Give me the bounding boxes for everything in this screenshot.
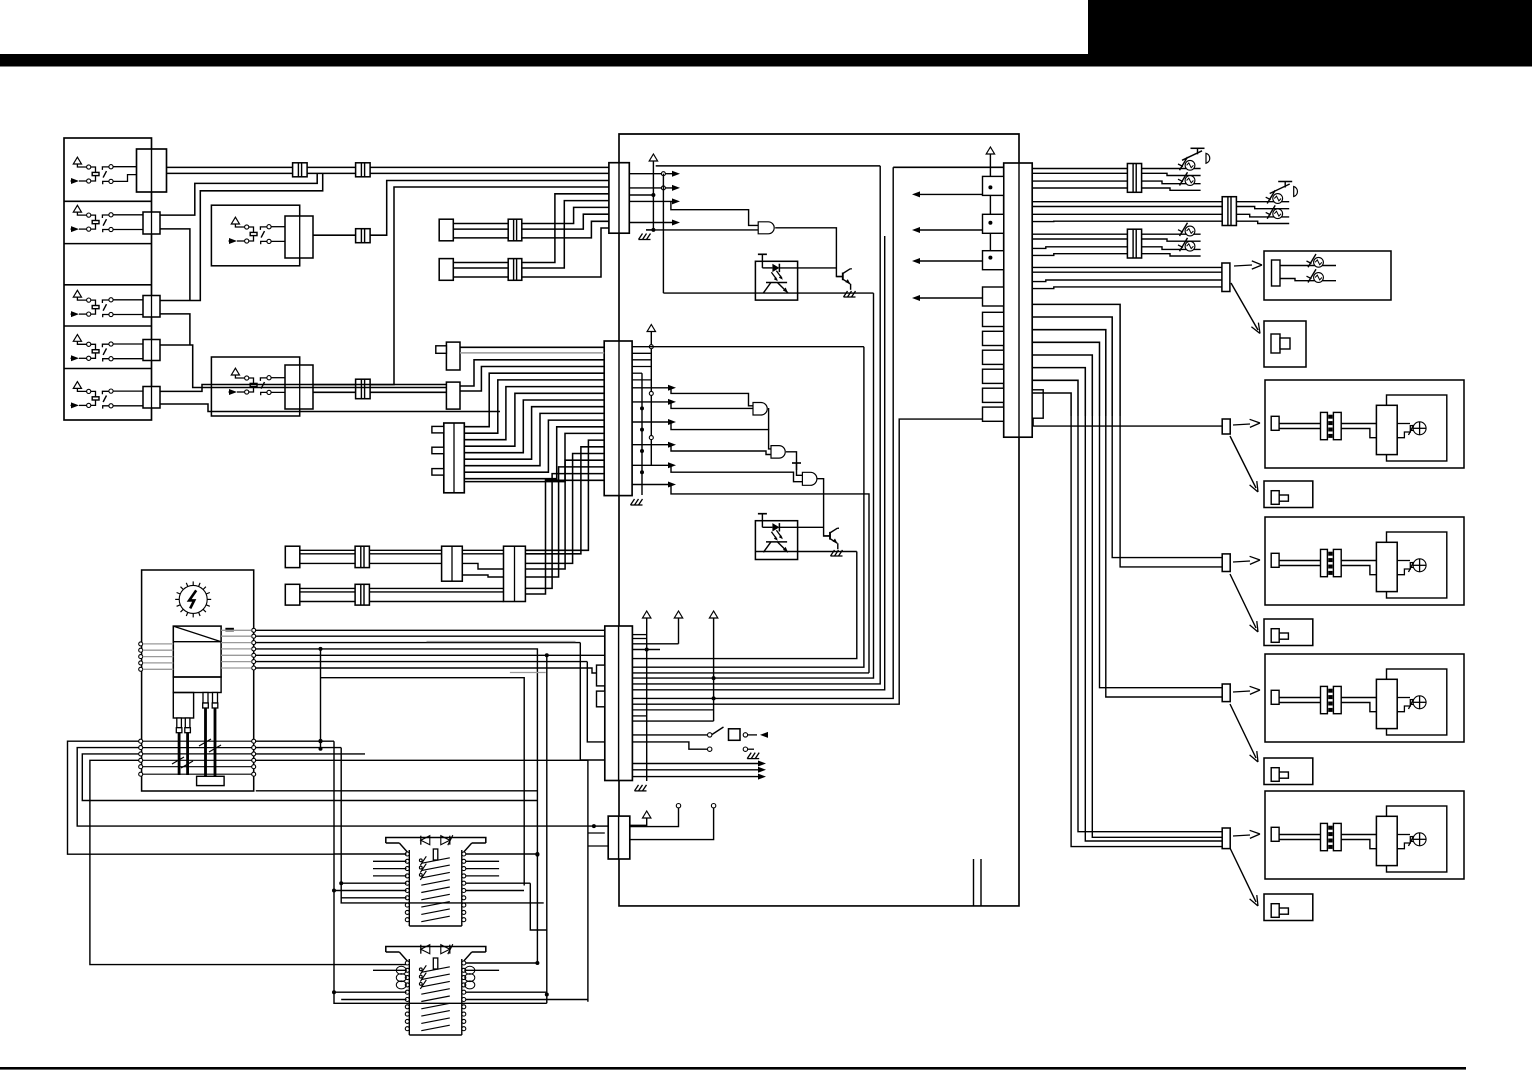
marker lamp B1 — [1307, 254, 1324, 267]
pin row r1 — [629, 171, 680, 177]
connector bar A — [1222, 419, 1230, 434]
connector B3 — [285, 365, 313, 409]
ladder1 right stubs — [466, 861, 500, 876]
wire U4 out — [817, 479, 830, 536]
connector K4 (panel) — [143, 340, 160, 361]
arrow to lamp box — [1234, 261, 1262, 269]
lamp group4 wires — [1032, 267, 1222, 288]
coil sub-block R stubs — [203, 693, 218, 709]
AND gate U2 — [753, 403, 767, 416]
wire SE-C102 5 — [464, 400, 604, 453]
spark slashes — [172, 739, 221, 768]
wire SC2 — [460, 352, 604, 354]
dome mast 2 — [1270, 182, 1298, 197]
marker conn — [1272, 260, 1281, 286]
wire SE-C102 8 — [464, 420, 604, 472]
inline connector CF — [508, 259, 522, 281]
loop drop 1 — [671, 388, 753, 406]
C102 row 373 — [632, 372, 642, 374]
C103 row 649 dot — [632, 648, 660, 652]
panel divider 5 — [64, 368, 152, 370]
relay K7 — [229, 368, 286, 395]
plug box1 — [1264, 321, 1306, 367]
wire SB1 to C101 — [522, 194, 609, 263]
connector bar G4 — [1222, 263, 1230, 292]
dist pins right mid — [252, 628, 256, 670]
ladder1 row6 wire — [332, 889, 524, 893]
wire SE-C102 2 — [464, 380, 604, 433]
wire SE-C102 6 — [464, 407, 604, 460]
wire B3 to SD — [370, 391, 446, 393]
cal resistor tab — [225, 628, 234, 632]
wire SD2 up — [460, 367, 604, 392]
wire R1 east — [256, 739, 334, 743]
wire SE-C102 9 — [464, 427, 604, 479]
power tri rails C103 — [643, 611, 718, 781]
wire stub pair SB — [439, 259, 453, 281]
unit B feeds — [1112, 416, 1222, 567]
dist pins lower L — [139, 739, 143, 776]
actuator unit D — [1265, 791, 1464, 879]
small plug box B2 — [1264, 619, 1313, 646]
wire SE-C102 3 — [464, 387, 604, 440]
marker wires — [1280, 266, 1336, 281]
ladder2 row6 wire — [341, 999, 588, 1001]
headlamp group2 wires — [1032, 202, 1222, 222]
C105 dots — [988, 185, 992, 259]
arrow B — [1233, 556, 1260, 564]
ladder2 left stub — [373, 969, 407, 971]
dist pins left mid — [139, 642, 143, 671]
wire R4 east — [256, 759, 588, 761]
inner module B frame — [893, 166, 1004, 168]
C103 row 721 — [632, 720, 713, 722]
wire B2-C102 3 — [525, 454, 604, 564]
arrow to plug box1 — [1231, 283, 1260, 334]
headlamp group1 wires — [1032, 169, 1127, 189]
panel divider 4 — [64, 325, 152, 327]
bus w7 — [632, 419, 982, 704]
lamp group3 lamps — [1142, 223, 1201, 256]
wire K1-b2 — [307, 172, 356, 174]
inline connector CS2 — [355, 584, 369, 605]
panel divider 2 — [64, 243, 152, 245]
loop drop 6 — [671, 485, 869, 673]
C103 left pin boxes — [597, 665, 605, 707]
bus boxB edge — [632, 167, 893, 698]
sensor stub S2 — [285, 584, 300, 605]
ladder1 left stubs — [373, 861, 407, 876]
C102 row 346 long — [632, 346, 864, 348]
header rule — [0, 54, 1532, 67]
actuator unit A — [1265, 380, 1464, 468]
wrap wire L2 — [77, 748, 594, 827]
pin row r3 — [629, 193, 655, 197]
C104 row3 — [588, 845, 608, 847]
wire B2-C102 2 — [525, 447, 604, 554]
S2 wires — [300, 588, 355, 601]
wire R3 east — [256, 753, 365, 755]
wire K5 lower — [160, 404, 500, 412]
stub connector SC — [436, 342, 460, 370]
S2 wires2 — [369, 588, 503, 601]
wire K1-b — [167, 172, 293, 174]
plug sym1 — [1271, 334, 1290, 353]
wire K3 junction — [160, 173, 323, 300]
C103 row 709 — [632, 709, 713, 711]
pin row r6 — [629, 220, 680, 226]
relay K2 — [71, 205, 144, 232]
opto emitter row — [663, 292, 873, 294]
ground Q1 — [844, 291, 856, 297]
loop drop 4 — [671, 445, 771, 455]
wire stub pair SA — [439, 219, 453, 241]
wire K1-a2 — [307, 166, 356, 168]
spark lead R1 — [204, 708, 207, 784]
connector SE (3-stub) — [432, 423, 464, 493]
wire B2 out — [313, 234, 356, 236]
connector K5 (panel) — [143, 387, 160, 409]
gate ground line — [646, 229, 758, 231]
wrap wire L3 — [82, 754, 537, 801]
loop drop 5 — [671, 465, 802, 481]
injector ladder 1 — [386, 835, 486, 926]
wire K2 junction — [160, 173, 317, 215]
actuator unit B — [1265, 517, 1464, 605]
AND gate U3 — [771, 446, 785, 459]
connector bar D — [1222, 828, 1230, 849]
C103 arrow rows — [632, 761, 766, 780]
arrow A — [1233, 419, 1260, 427]
connector C105 — [1004, 163, 1032, 437]
inline connector G3 — [1127, 229, 1141, 258]
inline connector CD — [356, 379, 371, 399]
power rail V3 — [647, 325, 655, 467]
footer rule — [0, 1067, 1466, 1070]
connector C103 — [605, 626, 633, 781]
transistor Q2 — [824, 528, 839, 549]
relay box B3 — [211, 357, 299, 416]
wrap wire L1 — [68, 741, 335, 854]
control unit box — [619, 134, 1019, 906]
ladder2 row5 wire — [332, 990, 547, 994]
arrow B2 — [1230, 574, 1258, 632]
gray wire b — [510, 672, 546, 674]
wire SC1 — [460, 346, 604, 348]
wire opto2 out — [755, 551, 856, 553]
wire B2 to C101 pin3 — [370, 181, 609, 236]
C104 pins up1 — [630, 804, 681, 827]
junction vertical — [319, 649, 323, 751]
wire B2-C102 7 — [525, 480, 604, 594]
arrow C2 — [1230, 704, 1258, 762]
coil bottom block — [197, 776, 225, 785]
rail V2 — [662, 174, 664, 293]
panel divider 1 — [64, 200, 152, 202]
inline connector G1 — [1127, 164, 1141, 193]
marker lamp B2 — [1307, 269, 1324, 282]
AND gate U4 — [802, 472, 817, 485]
C104 pins up2 — [630, 804, 716, 840]
connector C102 — [604, 341, 632, 496]
optocoupler PC2 — [755, 521, 797, 560]
wire opto2-base — [798, 526, 824, 528]
inline connector CC — [356, 229, 371, 243]
relay K5 — [71, 382, 144, 409]
ground rail V3g — [631, 373, 645, 505]
relay K1 — [71, 157, 137, 184]
wire SA1 — [453, 223, 508, 225]
wire B2-C102 6 — [525, 474, 604, 589]
headlamp group2 lamps — [1236, 190, 1289, 223]
spark lead L1 — [178, 733, 181, 775]
unit C feeds — [1100, 416, 1223, 697]
wire SE-C102 4 — [464, 393, 604, 446]
wire gate out — [775, 228, 843, 277]
wire dist-C103 a — [256, 629, 605, 631]
wire dist desc2 — [256, 653, 605, 1003]
wire B3 to C101 pin4 — [370, 187, 609, 385]
small plug box C2 — [1264, 758, 1313, 785]
small plug box D2 — [1264, 894, 1313, 921]
actuator unit C — [1265, 654, 1464, 742]
gray wire a — [427, 641, 576, 643]
wire K2 lower link — [160, 229, 190, 301]
wire K5 to SD — [160, 385, 446, 392]
arrow A2 — [1230, 436, 1258, 492]
C103 row 643 — [632, 643, 678, 645]
pin row r4 — [629, 198, 680, 204]
sensor stub S1 — [285, 546, 300, 567]
wire K4 to SD — [160, 345, 446, 388]
wire dist pinbox2 — [256, 668, 597, 673]
ladder2 right stub — [466, 969, 500, 971]
headlamp group1 lamps — [1142, 157, 1201, 190]
panel divider 3 — [64, 284, 152, 286]
marker lamp box — [1264, 251, 1391, 300]
connector B2 — [285, 216, 313, 258]
wire U3 out — [786, 452, 802, 476]
stub connector SD — [446, 382, 460, 409]
spark lead L2 — [186, 733, 189, 775]
loop B — [341, 748, 544, 903]
loop A — [334, 741, 547, 1003]
loop drop 2 — [671, 402, 753, 409]
wire SB2 — [453, 267, 508, 269]
unit D feeds — [1078, 416, 1222, 841]
pin r4 loop to gate — [671, 201, 758, 225]
relay box B2 — [211, 205, 299, 266]
wire B2-C102 1 — [525, 440, 604, 550]
inline connector CE — [508, 219, 522, 241]
vert x588 — [588, 760, 605, 1001]
ladder interconnect — [530, 883, 547, 930]
fuse-relay panel — [64, 138, 152, 420]
bus row494 — [632, 672, 869, 674]
ground G1 — [639, 230, 654, 240]
wire K1-a — [167, 166, 293, 168]
ladder1 row1 wire — [334, 852, 539, 856]
connector K2 (panel) — [143, 212, 160, 234]
wire SA1 to C101 — [522, 207, 609, 223]
connector C101 — [609, 163, 629, 234]
wire B3 out1 — [313, 384, 356, 386]
wrap wire L4 — [90, 760, 407, 964]
wire B2-C102 5 — [525, 467, 604, 577]
spark lead R2 — [214, 708, 217, 784]
wire SA2 — [453, 228, 508, 230]
bus boxA edge — [632, 166, 880, 684]
C103 row dots — [712, 676, 716, 700]
wire SB3 — [453, 276, 508, 278]
dist wires left mid — [143, 644, 174, 669]
wire B2-C102 4 — [525, 460, 604, 569]
wire row 790 — [256, 790, 538, 792]
arrow D2 — [1230, 848, 1258, 906]
wire SB2 to C101 — [522, 201, 609, 268]
wire SE-C102 1 — [464, 373, 604, 427]
loop drop 3 — [671, 422, 771, 449]
bus w5 — [632, 236, 884, 690]
inline connector CB — [356, 163, 371, 177]
wire dist pinbox1 — [256, 661, 588, 663]
C105 right tab — [1032, 390, 1043, 418]
cap T1 — [758, 254, 767, 261]
ground G3 — [635, 785, 647, 791]
optocoupler PC1 — [755, 261, 797, 300]
wire SB1 — [453, 262, 508, 264]
ladder1 row7 wire — [341, 897, 406, 899]
wire SA3 to C101 — [522, 221, 609, 238]
injector ladder 2 — [386, 944, 486, 1035]
C105 left arrows — [912, 191, 983, 301]
C104 down wires — [974, 859, 982, 906]
wire to C101 pin2 — [370, 172, 609, 174]
S1 wires2 — [369, 550, 441, 563]
connector K3 (panel) — [143, 296, 160, 318]
dist pins lower R — [252, 739, 256, 776]
wire dist-C103 b — [256, 635, 605, 637]
crank sensor symbol — [175, 581, 211, 617]
bus opto2 — [632, 552, 856, 659]
fanout tails — [1071, 416, 1222, 847]
row 824 wire — [592, 824, 608, 828]
arrow C — [1233, 686, 1260, 694]
wire SA2 to C101 — [522, 214, 609, 229]
switch S1 — [632, 727, 768, 759]
lamp group3 wires — [1032, 234, 1127, 255]
transistor Q1 — [836, 269, 851, 290]
pin row r2 — [629, 185, 680, 191]
wire R2 east — [256, 747, 341, 749]
connector bar C — [1222, 684, 1230, 702]
wire opto-base — [798, 267, 837, 269]
ladder2 row1 wire — [466, 961, 540, 965]
connector B2 — [504, 546, 526, 601]
unit A feed — [1033, 418, 1222, 426]
connector B1 — [442, 546, 463, 581]
relay K3 — [71, 290, 144, 317]
inline connector CS1 — [355, 546, 369, 567]
B1-B2 wires — [462, 550, 503, 577]
connector C104 — [608, 816, 630, 859]
C105 fanout — [1032, 304, 1120, 416]
coil sub-block L — [173, 693, 193, 733]
S1 wires — [300, 550, 355, 563]
bus row346 — [632, 347, 864, 668]
C105 power tri — [986, 147, 994, 258]
wire SE-C102 7 — [464, 413, 604, 465]
distributor box — [142, 570, 254, 791]
inline connector G2 — [1222, 197, 1236, 226]
AND gate U1 — [758, 222, 774, 234]
small plug box A2 — [1264, 481, 1313, 508]
bus opto1 — [632, 293, 873, 678]
ground Q2 — [831, 550, 843, 556]
C103 left wires — [580, 643, 605, 760]
ignition coil unit — [173, 626, 221, 692]
inline connector CA — [293, 163, 308, 177]
relay K6 — [229, 217, 286, 244]
C105 left pin boxes — [983, 176, 1004, 306]
frame wire — [321, 678, 525, 886]
wire SB3 to C101 — [522, 228, 609, 277]
power rail V1 — [649, 154, 657, 232]
wire SA3 — [453, 237, 508, 239]
wire to C101 pin1 — [370, 166, 609, 168]
connector bar B — [1222, 554, 1230, 572]
wire K3 lower link — [160, 314, 190, 345]
arrow D — [1233, 830, 1260, 838]
ladder1 row5 wire — [339, 881, 530, 885]
dist wires right mid — [221, 630, 252, 668]
dome mast 1 — [1182, 148, 1210, 163]
wire SD1 up — [460, 360, 604, 386]
title block (black) — [1088, 0, 1532, 54]
wire dist desc1 — [256, 647, 540, 964]
C104 power tri — [630, 811, 651, 825]
inner module A frame — [656, 165, 881, 167]
wire B3 out2 — [313, 391, 356, 393]
connector K1 (panel) — [137, 149, 167, 192]
C105 left pin boxes low — [983, 312, 1004, 421]
C102 stub rows — [632, 353, 651, 380]
wire U2 out — [767, 409, 770, 430]
dist lower cross rows — [143, 741, 252, 774]
cap T4 — [758, 514, 767, 521]
wire SE-C102 10 — [464, 433, 604, 481]
cap T3 — [792, 463, 801, 470]
wire dist-C103 c — [256, 642, 581, 644]
relay K4 — [71, 335, 144, 362]
C103 short rows — [632, 635, 646, 716]
C102 arrow rows — [632, 385, 676, 488]
